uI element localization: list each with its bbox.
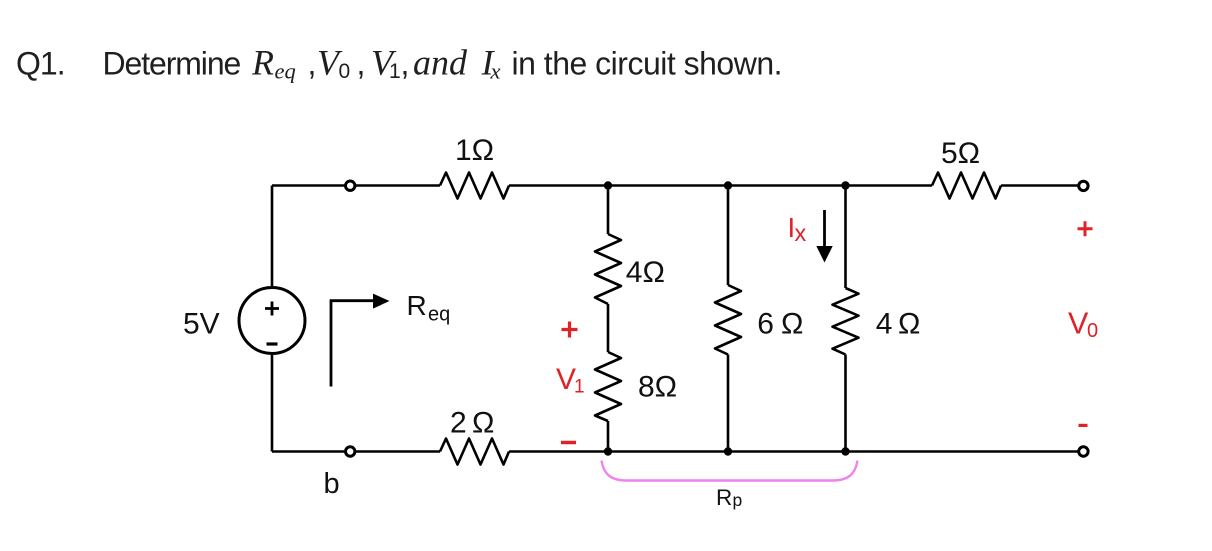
wire branch3 top [844,186,847,289]
svg-text:5Ω: 5Ω [941,137,980,170]
svg-text:5V: 5V [183,308,220,341]
svg-text:,: , [401,46,410,82]
svg-text:b: b [324,468,340,500]
voltage source VS 5V circle [239,288,305,354]
svg-text:eq: eq [275,59,296,84]
svg-text:Q1.: Q1. [16,46,65,82]
svg-text:,: , [308,46,317,82]
svg-text:p: p [733,490,743,510]
wire branch2 bottom [727,355,730,452]
svg-text:1: 1 [389,60,401,83]
svg-text:R: R [407,290,427,321]
svg-text:4: 4 [876,308,893,341]
Ix current arrow shaft [823,210,826,247]
wire bottom rail left segment [272,450,440,453]
resistor R6 6ohm zigzag [715,285,741,355]
wire branch1 middle [607,304,610,352]
title question text [16,43,782,84]
junction node top branch3 [841,181,849,189]
resistor R1 1ohm zigzag [440,173,509,199]
svg-text:in the circuit shown.: in the circuit shown. [512,46,783,82]
wire source bottom down to bottom rail [271,354,274,452]
svg-text:x: x [795,220,807,246]
minus sign inside source [267,342,278,345]
Req arrow head [373,294,390,309]
junction node bottom branch1 [604,447,612,455]
svg-text:and: and [413,43,468,83]
junction node bottom branch3 [841,447,849,455]
open terminal output bottom right [1079,447,1088,456]
wire branch3 bottom [844,355,847,452]
wire bottom rail right segment [509,450,1078,453]
svg-text:Ω: Ω [898,308,920,341]
svg-text:Ω: Ω [781,308,803,341]
wire branch1 bottom [607,421,610,452]
svg-text:V: V [556,363,576,396]
open terminal output top right [1079,181,1088,190]
svg-text:Determine: Determine [103,46,241,82]
svg-text:6: 6 [757,308,774,341]
wire branch1 top [607,186,610,235]
resistor R5 5ohm zigzag [932,173,1001,199]
svg-text:1: 1 [574,377,585,398]
red minus polarity V1 [561,441,576,445]
red minus polarity V0 [1079,424,1088,427]
svg-text:Ω: Ω [472,407,494,440]
resistor R3 4ohm zigzag [595,234,621,304]
red plus polarity V0 [1078,221,1093,236]
svg-text:,: , [357,46,366,82]
wire top rail right segment to output terminal [1001,184,1078,187]
svg-text:eq: eq [428,304,450,326]
wire top rail left segment [272,184,440,187]
svg-text:2: 2 [450,407,467,440]
resistor R2 2ohm zigzag [440,439,509,465]
wire branch2 top [727,186,730,286]
resistor R4 8ohm zigzag [595,352,621,421]
svg-text:1Ω: 1Ω [455,134,494,167]
Ix current arrow head [816,246,832,263]
wire top-left corner down to source top [271,186,274,289]
junction node top branch2 [724,181,732,189]
red plus polarity V1 [562,322,578,338]
brace Rp pink bracket [602,461,858,481]
svg-text:R: R [251,43,274,83]
resistor R7 4ohm zigzag [833,288,859,355]
svg-text:V: V [1068,307,1089,341]
wire top rail middle segment [509,184,932,187]
svg-text:0: 0 [339,60,351,83]
open terminal node b bottom left [346,447,355,456]
plus sign inside source [265,302,279,316]
svg-text:R: R [716,485,732,510]
open terminal top left [346,181,355,190]
svg-text:x: x [490,59,501,84]
junction node bottom branch2 [724,447,732,455]
svg-text:8Ω: 8Ω [638,371,677,404]
junction node top branch1 [604,181,612,189]
svg-text:4Ω: 4Ω [626,256,665,289]
svg-text:0: 0 [1087,320,1098,342]
Req arrow bent line [331,301,374,387]
